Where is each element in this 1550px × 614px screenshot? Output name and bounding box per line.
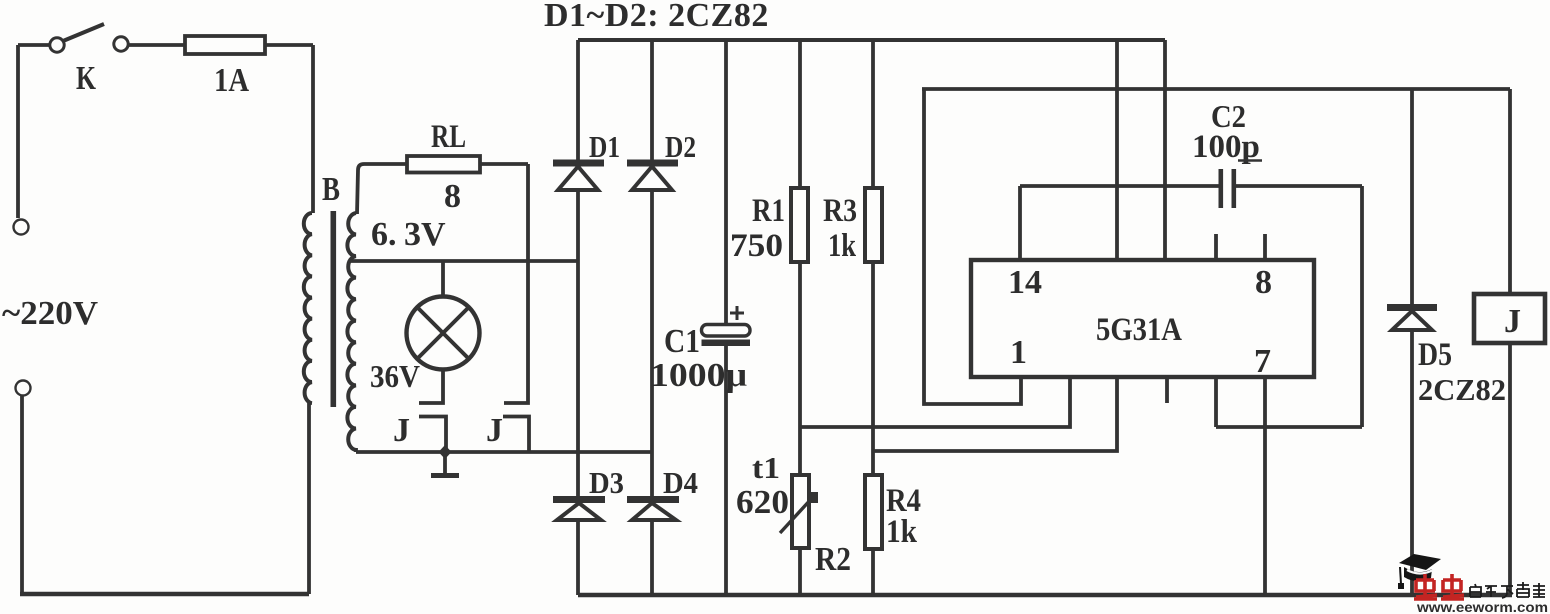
resistor R3 xyxy=(871,40,875,188)
svg-text:D3: D3 xyxy=(589,465,624,500)
wire pin14 stub xyxy=(1018,186,1022,260)
svg-text:5G31A: 5G31A xyxy=(1096,312,1182,348)
wire top-left vertical xyxy=(16,45,20,218)
wire C2 loop top xyxy=(1020,184,1362,188)
tap wire 6.3V/36V junction xyxy=(349,259,577,263)
diode D3 xyxy=(553,496,605,503)
svg-text:6.3V: 6.3V xyxy=(371,216,446,253)
svg-text:~220V: ~220V xyxy=(2,295,98,332)
svg-text:C1: C1 xyxy=(664,323,700,360)
wire C2 loop right xyxy=(1360,186,1364,427)
left relay contact J moving piece xyxy=(419,417,446,453)
resistor R1 xyxy=(798,40,802,188)
svg-text:7: 7 xyxy=(1254,343,1271,380)
svg-text:J: J xyxy=(1504,303,1521,340)
wire D4 to bottom rail xyxy=(650,520,654,595)
wire pin to C2 loop bottom xyxy=(1216,377,1362,427)
wire supply vertical to IC top xyxy=(1115,40,1119,260)
svg-text:750: 750 xyxy=(730,228,783,264)
svg-text:D5: D5 xyxy=(1418,337,1452,373)
bottom DC rail xyxy=(578,593,1512,597)
svg-text:R3: R3 xyxy=(823,193,857,229)
svg-text:8: 8 xyxy=(1255,264,1272,301)
capacitor C1 top plate xyxy=(702,325,751,337)
wire top-left horizontal to switch xyxy=(18,43,50,47)
terminal circle lower xyxy=(16,381,31,396)
wire switch to fuse xyxy=(128,43,185,47)
svg-text:D4: D4 xyxy=(663,465,698,500)
svg-text:B: B xyxy=(322,171,340,208)
diode D2 xyxy=(650,40,654,160)
wire bottom-left rail xyxy=(20,592,309,596)
watermark graduation cap icon xyxy=(1398,554,1441,589)
svg-text:8: 8 xyxy=(444,178,461,215)
svg-text:620: 620 xyxy=(736,484,789,521)
svg-text:K: K xyxy=(76,60,96,97)
transformer secondary winding 6.3V+36V xyxy=(347,213,356,450)
svg-text:R1: R1 xyxy=(752,193,785,229)
top DC bus xyxy=(578,38,1165,42)
lamp xyxy=(407,297,480,370)
ground xyxy=(443,452,447,474)
svg-text:www.eeworm.com: www.eeworm.com xyxy=(1416,599,1548,614)
wire column x528 down to right contact xyxy=(504,164,528,403)
wire 36V bottom to AC bus xyxy=(354,448,358,452)
svg-text:1A: 1A xyxy=(214,62,249,99)
wire feedback top line xyxy=(922,87,1510,91)
wire down to transformer primary xyxy=(311,45,315,213)
wire R1/R2 node to IC pin xyxy=(800,377,1070,427)
rheostat R2 body xyxy=(792,475,809,548)
svg-text:1: 1 xyxy=(1010,334,1027,371)
relay coil J xyxy=(1508,89,1512,294)
R2 arrow xyxy=(780,497,813,533)
transformer B primary winding xyxy=(304,213,312,403)
NC stub bottom xyxy=(1165,377,1169,403)
resistor RL body xyxy=(407,156,480,173)
svg-text:36V: 36V xyxy=(370,358,420,394)
wire fuse to corner xyxy=(265,43,313,47)
AC bus to D2/D4 column xyxy=(356,450,651,454)
C1 column bottom xyxy=(724,346,728,595)
wire up to primary bottom xyxy=(307,403,311,594)
svg-text:R2: R2 xyxy=(815,541,851,578)
wire bus end down to IC top xyxy=(1163,40,1167,260)
resistor R4 xyxy=(865,475,882,549)
watermark site name xyxy=(1470,582,1545,598)
capacitor C1 bottom plate xyxy=(702,340,751,347)
transformer B core xyxy=(331,211,337,407)
lamp top lead xyxy=(441,261,445,297)
junction dot xyxy=(439,445,452,459)
svg-text:D1: D1 xyxy=(589,129,620,164)
svg-text:J: J xyxy=(393,412,410,449)
wire D2 anode column xyxy=(650,190,654,496)
op-amp/regulator IC 5G31A box xyxy=(971,260,1314,377)
wire lower-left vertical xyxy=(20,396,24,594)
C1 plus sign xyxy=(730,306,744,320)
diode D4 xyxy=(627,496,679,503)
svg-text:1k: 1k xyxy=(828,228,857,264)
capacitor C1 column top xyxy=(724,40,728,324)
svg-text:J: J xyxy=(486,412,503,449)
lamp bottom lead / left contact fixed xyxy=(419,370,443,403)
svg-text:2CZ82: 2CZ82 xyxy=(1418,372,1506,407)
right relay contact J moving piece xyxy=(503,417,529,453)
wire secondary top to RL xyxy=(357,164,407,214)
NC stubs top xyxy=(1216,234,1265,260)
svg-text:1000μ: 1000μ xyxy=(650,357,747,394)
svg-text:D2: D2 xyxy=(665,129,696,164)
wire D3 to bottom rail xyxy=(576,520,580,595)
fuse 1A body xyxy=(185,36,265,54)
svg-text:14: 14 xyxy=(1008,264,1042,301)
R2 bottom lead xyxy=(798,548,802,595)
terminal circle upper xyxy=(14,220,29,235)
diode D5 xyxy=(1410,89,1414,304)
switch K blade xyxy=(63,24,104,41)
wire pin1 loop left xyxy=(924,89,1021,404)
svg-text:t1: t1 xyxy=(752,450,780,485)
svg-text:1k: 1k xyxy=(886,514,918,550)
watermark red characters xyxy=(1414,574,1464,599)
wire D1 anode column xyxy=(576,190,580,496)
diode D1 xyxy=(576,40,580,160)
switch K right terminal xyxy=(114,37,128,51)
wire R3/R4 node to IC pin xyxy=(873,377,1117,451)
wire pin7 column to bottom rail xyxy=(1263,377,1267,595)
switch K left terminal xyxy=(50,38,64,52)
capacitor C2 xyxy=(1219,169,1224,208)
wire RL right to column xyxy=(480,162,528,166)
svg-text:D1~D2: 2CZ82: D1~D2: 2CZ82 xyxy=(544,0,769,34)
svg-text:RL: RL xyxy=(431,119,466,155)
